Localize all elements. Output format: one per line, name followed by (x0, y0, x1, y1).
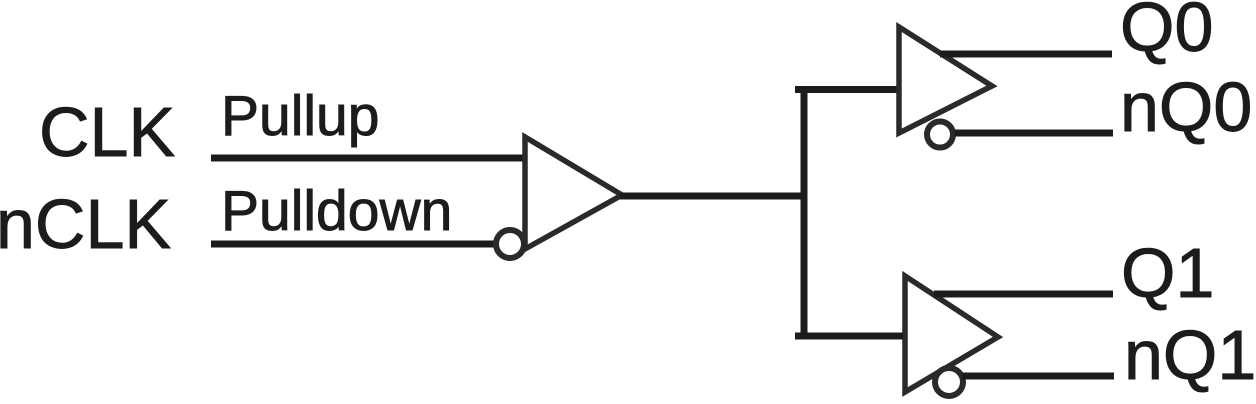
svg-text:Pulldown: Pulldown (221, 179, 452, 243)
wire CLK input line (211, 155, 527, 162)
svg-text:nQ0: nQ0 (1120, 68, 1252, 146)
buffer U3 inverting output bubble (935, 368, 963, 396)
wire Q0 output line (940, 51, 1112, 58)
wire top branch to U2 (795, 86, 901, 93)
svg-text:nCLK: nCLK (0, 185, 171, 263)
buffer U3 triangle (output buffer 1) (905, 276, 998, 392)
wire Q1 output line (934, 291, 1113, 298)
svg-text:CLK: CLK (39, 93, 175, 171)
svg-text:Q1: Q1 (1121, 234, 1214, 312)
buffer U2 triangle (output buffer 0) (899, 27, 992, 133)
wire nQ0 output line (955, 130, 1113, 137)
svg-text:Q0: Q0 (1120, 0, 1213, 66)
buffer U1 inverting input bubble (496, 230, 524, 258)
wire bottom branch to U3 (795, 333, 907, 340)
svg-text:nQ1: nQ1 (1124, 316, 1256, 394)
wire fanout vertical line (801, 86, 808, 339)
buffer U2 inverting output bubble (927, 122, 953, 148)
svg-text:Pullup: Pullup (221, 84, 379, 148)
wire nCLK input line (211, 241, 495, 248)
wire nQ1 output line (962, 373, 1114, 380)
buffer U1 triangle (input differential buffer) (525, 137, 622, 249)
wire U1 output line (620, 193, 806, 200)
